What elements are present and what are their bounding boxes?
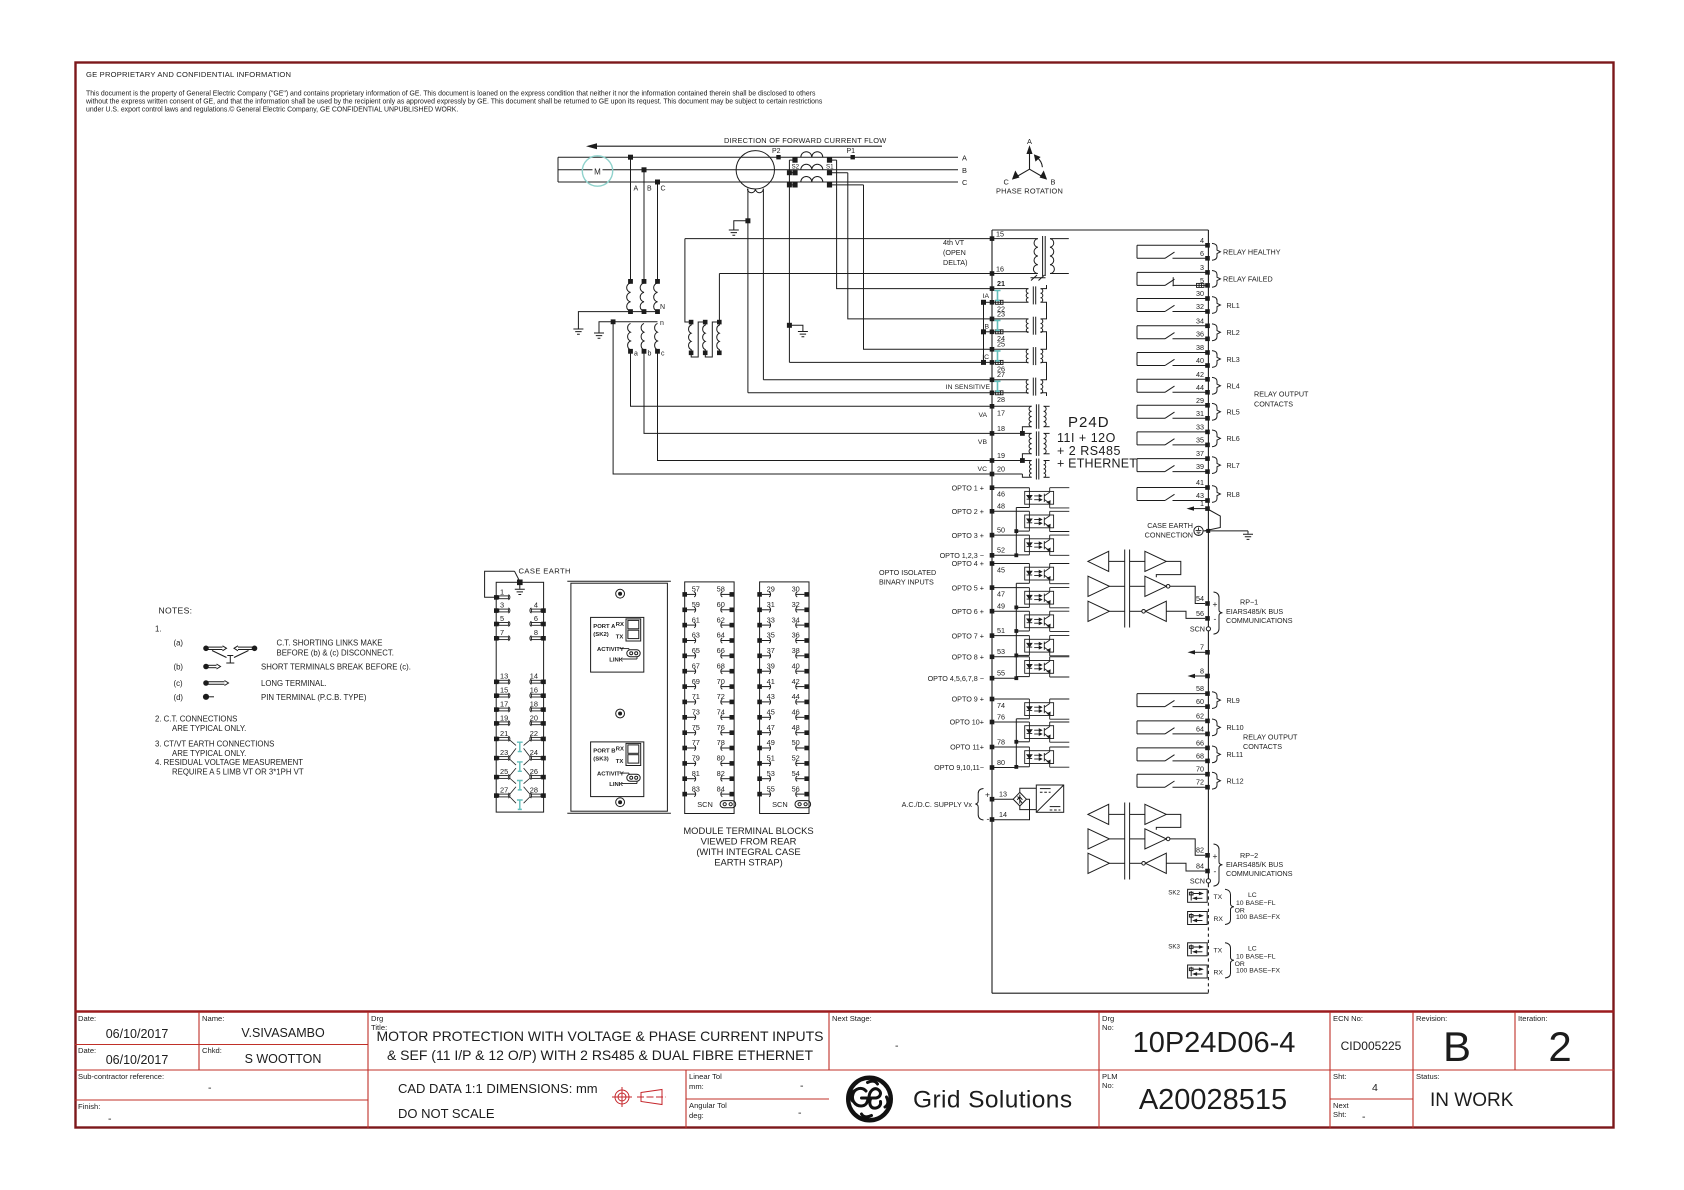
svg-text:40: 40 (792, 661, 800, 670)
svg-text:CAD DATA 1:1 DIMENSIONS: mm: CAD DATA 1:1 DIMENSIONS: mm (398, 1081, 598, 1096)
relay output RL10 (1137, 711, 1244, 736)
svg-text:deg:: deg: (689, 1111, 704, 1120)
first-angle projection symbol (612, 1087, 666, 1107)
svg-text:PORT B: PORT B (593, 748, 615, 754)
svg-text:OPTO 10+: OPTO 10+ (950, 718, 984, 727)
svg-text:-: - (208, 1082, 212, 1094)
svg-text:56: 56 (1196, 609, 1204, 618)
svg-text:48: 48 (997, 502, 1005, 511)
svg-text:72: 72 (1196, 778, 1204, 787)
svg-text:EIARS485/K BUS: EIARS485/K BUS (1226, 860, 1283, 869)
svg-text:RP−1: RP−1 (1240, 598, 1258, 607)
svg-text:Drg: Drg (1102, 1014, 1114, 1023)
svg-text:VC: VC (978, 466, 988, 473)
svg-text:41: 41 (1196, 478, 1204, 487)
svg-text:39: 39 (767, 661, 775, 670)
block4 terminal 55 (757, 784, 775, 796)
svg-text:21: 21 (500, 729, 508, 738)
RP-2 drive buffer 1 (1088, 829, 1109, 849)
RP-1 drive buffer 1 (1088, 576, 1109, 596)
block3 terminal 81 (682, 769, 700, 781)
svg-text:15: 15 (500, 686, 508, 695)
phase rotation symbol (1013, 147, 1046, 179)
terminal block 3 (685, 582, 734, 814)
svg-text:IC: IC (982, 354, 989, 361)
svg-text:No:: No: (1102, 1023, 1114, 1032)
terminal 56 (1205, 616, 1210, 621)
relay failed contact (1137, 263, 1273, 288)
svg-text:RELAY FAILED: RELAY FAILED (1223, 275, 1273, 284)
svg-text:82: 82 (717, 769, 725, 778)
block4 terminal 50 (792, 738, 809, 750)
svg-text:Date:: Date: (78, 1046, 96, 1055)
block1 terminal 16 (530, 686, 546, 699)
svg-text:Iteration:: Iteration: (1518, 1014, 1548, 1023)
RP-2 driver 2 (1145, 829, 1166, 849)
svg-text:(a): (a) (174, 639, 184, 648)
svg-text:77: 77 (692, 738, 700, 747)
opto input 4 terminal 45 (952, 559, 1070, 584)
svg-text:Chkd:: Chkd: (202, 1046, 222, 1055)
relay output RL3 (1137, 343, 1240, 368)
svg-text:26: 26 (530, 767, 538, 776)
block4 terminal 41 (757, 677, 775, 689)
svg-text:63: 63 (692, 631, 700, 640)
block4 terminal 38 (792, 646, 809, 658)
svg-text:RL6: RL6 (1227, 434, 1240, 443)
svg-text:14: 14 (999, 810, 1007, 819)
opto group 1 return terminal 52 (940, 508, 1019, 561)
svg-text:V.SIVASAMBO: V.SIVASAMBO (241, 1026, 325, 1040)
svg-text:Finish:: Finish: (78, 1102, 100, 1111)
current input IC (982, 340, 1043, 374)
svg-text:RX: RX (1214, 916, 1224, 923)
svg-text:80: 80 (717, 754, 725, 763)
svg-text:6: 6 (534, 614, 538, 623)
block4 terminal 54 (792, 769, 809, 781)
svg-text:78: 78 (997, 737, 1005, 746)
svg-text:a: a (634, 351, 638, 358)
opto input 1 terminal 46 (952, 483, 1070, 508)
svg-text:LINK: LINK (609, 782, 623, 788)
svg-text:-: - (1362, 1111, 1366, 1123)
svg-text:19: 19 (997, 451, 1005, 460)
svg-text:P24D: P24D (1068, 414, 1110, 431)
title block labels (78, 1014, 1548, 1120)
svg-text:2: 2 (1548, 1023, 1571, 1070)
svg-text:B: B (647, 186, 652, 193)
terminal 82 (1205, 853, 1210, 858)
ring CT earth symbol (729, 230, 739, 235)
svg-text:37: 37 (1196, 449, 1204, 458)
svg-text:OPTO 2 +: OPTO 2 + (952, 507, 984, 516)
RP-2 brace (1214, 844, 1223, 886)
svg-text:Sub-contractor reference:: Sub-contractor reference: (78, 1072, 164, 1081)
block1 terminal 5 (494, 614, 510, 627)
block3 terminal 74 (717, 708, 734, 720)
block4 terminal 47 (757, 723, 775, 735)
wire ring CT to terminal 27 (763, 379, 992, 381)
block1 terminal 21 (494, 729, 510, 742)
svg-text:10P24D06-4: 10P24D06-4 (1133, 1027, 1296, 1059)
PORT B panel (591, 742, 644, 797)
svg-text:SK2: SK2 (1168, 890, 1180, 897)
svg-text:60: 60 (717, 600, 725, 609)
svg-text:52: 52 (792, 754, 800, 763)
wire broken delta to terminal 15 (685, 238, 992, 240)
relay output RL2 (1137, 316, 1240, 341)
svg-text:CONNECTION: CONNECTION (1145, 531, 1193, 540)
svg-text:55: 55 (997, 669, 1005, 678)
svg-text:42: 42 (792, 677, 800, 686)
VT secondary earth (594, 333, 604, 338)
SK3 RX module (1188, 965, 1224, 978)
svg-text:82: 82 (1196, 846, 1204, 855)
svg-text:44: 44 (792, 692, 800, 701)
current input IB (983, 309, 1043, 343)
svg-text:P2: P2 (772, 148, 781, 155)
block4 terminal 32 (792, 600, 809, 612)
svg-text:-: - (800, 1080, 804, 1092)
core balance ring CT (736, 151, 774, 393)
wire broken delta to terminal 16 (719, 273, 992, 275)
relay output RL9 (1137, 684, 1240, 709)
svg-text:45: 45 (997, 566, 1005, 575)
svg-text:8: 8 (534, 628, 538, 637)
svg-text:Sht:: Sht: (1333, 1110, 1347, 1119)
svg-text:44: 44 (1196, 383, 1204, 392)
svg-text:83: 83 (692, 784, 700, 793)
svg-text:55: 55 (767, 784, 775, 793)
opto input 11 terminal 78 (950, 737, 1069, 767)
RP-1 receive buffer (1088, 551, 1109, 571)
svg-text:58: 58 (1196, 684, 1204, 693)
svg-text:(OPEN: (OPEN (943, 248, 966, 257)
svg-text:57: 57 (692, 585, 700, 594)
svg-text:37: 37 (767, 646, 775, 655)
current input IA (983, 279, 1043, 313)
block3 terminal 69 (682, 677, 700, 689)
CT secondary chain stubs (1041, 285, 1047, 396)
svg-text:RL2: RL2 (1227, 328, 1240, 337)
svg-text:84: 84 (1196, 861, 1204, 870)
sensitive earth fault input (946, 370, 1043, 404)
relay output RL5 (1137, 396, 1240, 421)
svg-text:without the express written co: without the express written consent of G… (85, 99, 823, 106)
svg-text:RP−2: RP−2 (1240, 851, 1258, 860)
RP-1 drive buffer 2 (1088, 601, 1109, 621)
svg-text:38: 38 (792, 646, 800, 655)
svg-text:DIRECTION OF FORWARD CURREN: DIRECTION OF FORWARD CURRENT FLOW (724, 136, 887, 145)
module screw (616, 798, 625, 807)
svg-text:100 BASE−FX: 100 BASE−FX (1236, 968, 1280, 975)
svg-text:13: 13 (999, 790, 1007, 799)
svg-text:ECN No:: ECN No: (1333, 1014, 1363, 1023)
svg-text:4: 4 (534, 601, 538, 610)
RP-1 driver 2 (1145, 576, 1166, 596)
svg-text:47: 47 (997, 590, 1005, 599)
block3 terminal 58 (717, 585, 734, 597)
svg-text:MODULE TERMINAL BLOCKS: MODULE TERMINAL BLOCKS (683, 825, 813, 836)
svg-text:OPTO 9 +: OPTO 9 + (952, 695, 984, 704)
svg-text:1.: 1. (155, 625, 162, 634)
wire b to terminal 18 (644, 351, 992, 433)
svg-text:78: 78 (717, 738, 725, 747)
svg-text:35: 35 (1196, 435, 1204, 444)
svg-text:OPTO 7 +: OPTO 7 + (952, 631, 984, 640)
svg-text:24: 24 (530, 748, 538, 757)
svg-text:49: 49 (997, 602, 1005, 611)
svg-text:75: 75 (692, 723, 700, 732)
case earth connection (1145, 510, 1253, 540)
SK3 brace (1225, 943, 1234, 978)
svg-text:LONG TERMINAL.: LONG TERMINAL. (261, 679, 327, 688)
svg-text:RELAY HEALTHY: RELAY HEALTHY (1223, 248, 1281, 257)
svg-text:VIEWED FROM REAR: VIEWED FROM REAR (701, 836, 797, 847)
svg-text:84: 84 (717, 784, 725, 793)
svg-text:3: 3 (500, 601, 504, 610)
svg-text:76: 76 (997, 712, 1005, 721)
opto group 2 return terminal 55 (928, 583, 1019, 683)
svg-text:3: 3 (1200, 263, 1204, 272)
VT primary earth (573, 329, 583, 334)
svg-text:33: 33 (1196, 422, 1204, 431)
svg-text:SK3: SK3 (1168, 944, 1180, 951)
svg-text:16: 16 (996, 264, 1004, 273)
RP-2 receiver 2 (1146, 853, 1167, 873)
A.C./D.C. auxiliary supply (902, 785, 1064, 824)
svg-text:+: + (985, 790, 990, 800)
opto input 3 terminal 50 (952, 526, 1070, 556)
wire a to terminal 17 (631, 351, 993, 406)
svg-text:Grid Solutions: Grid Solutions (913, 1087, 1072, 1114)
svg-text:RL7: RL7 (1227, 461, 1240, 470)
voltage input VC (978, 451, 1050, 480)
svg-text:50: 50 (792, 738, 800, 747)
svg-text:Date:: Date: (78, 1014, 96, 1023)
svg-text:60: 60 (1196, 697, 1204, 706)
svg-text:16: 16 (530, 686, 538, 695)
svg-text:41: 41 (767, 677, 775, 686)
svg-text:06/10/2017: 06/10/2017 (106, 1053, 169, 1067)
block4 terminal 45 (757, 708, 775, 720)
svg-text:39: 39 (1196, 462, 1204, 471)
svg-text:EIARS485/K BUS: EIARS485/K BUS (1226, 607, 1283, 616)
svg-text:Sht:: Sht: (1333, 1072, 1347, 1081)
svg-text:OPTO 8 +: OPTO 8 + (952, 653, 984, 662)
block4 terminal 51 (757, 754, 775, 766)
svg-text:TX: TX (616, 759, 624, 765)
block4 terminal 30 (792, 585, 809, 597)
block3 terminal 65 (682, 646, 700, 658)
bus line A (558, 156, 958, 158)
block3 terminal 63 (682, 631, 700, 643)
ring CT secondary leads (747, 189, 749, 393)
block3 terminal 71 (682, 692, 700, 704)
svg-text:68: 68 (717, 661, 725, 670)
svg-text:14: 14 (530, 672, 538, 681)
block4 SCN terminal (772, 800, 811, 809)
svg-text:TX: TX (1214, 894, 1223, 901)
svg-text:TX: TX (616, 634, 624, 640)
svg-text:C: C (962, 178, 968, 187)
svg-text:13: 13 (500, 672, 508, 681)
svg-text:67: 67 (692, 661, 700, 670)
block1 terminal 22 (530, 729, 546, 742)
svg-text:A.C./D.C. SUPPLY Vx: A.C./D.C. SUPPLY Vx (902, 800, 973, 809)
svg-text:4. RESIDUAL VOLTAGE MEASURE: 4. RESIDUAL VOLTAGE MEASUREMENT (155, 758, 303, 767)
RP-2 isolation barrier (1124, 803, 1126, 880)
svg-text:20: 20 (530, 713, 538, 722)
broken delta VT winding (685, 239, 721, 357)
svg-text:LC: LC (1248, 946, 1257, 953)
svg-text:7: 7 (1200, 643, 1204, 652)
block1 terminal 23 (494, 748, 510, 761)
svg-text:+: + (1213, 851, 1218, 861)
svg-text:50: 50 (997, 526, 1005, 535)
svg-text:79: 79 (692, 754, 700, 763)
svg-text:-: - (798, 1107, 802, 1119)
svg-text:18: 18 (530, 700, 538, 709)
block1 terminal 4 (530, 601, 546, 614)
svg-text:IB: IB (983, 323, 990, 330)
svg-text:54: 54 (1196, 594, 1204, 603)
block1 terminal 13 (494, 672, 510, 685)
svg-text:32: 32 (792, 600, 800, 609)
svg-text:c: c (661, 351, 665, 358)
svg-text:Name:: Name: (202, 1014, 224, 1023)
RP-1 receiver 2 (1146, 601, 1167, 621)
title block values (106, 1026, 325, 1067)
svg-text:+: + (1213, 599, 1218, 609)
svg-text:SHORT TERMINALS BREAK BEFORE (: SHORT TERMINALS BREAK BEFORE (c). (261, 663, 411, 672)
block3 terminal 75 (682, 723, 700, 735)
SK3 TX module (1168, 943, 1222, 956)
svg-text:35: 35 (767, 631, 775, 640)
terminal 54 (1205, 601, 1210, 606)
svg-text:OPTO 11+: OPTO 11+ (950, 743, 984, 752)
svg-text:RL9: RL9 (1227, 696, 1240, 705)
svg-text:PHASE ROTATION: PHASE ROTATION (996, 187, 1063, 196)
svg-text:62: 62 (1196, 711, 1204, 720)
svg-text:38: 38 (1196, 343, 1204, 352)
terminal 15 (990, 236, 995, 241)
block1 terminal 7 (494, 628, 510, 641)
svg-text:RL1: RL1 (1227, 301, 1240, 310)
svg-text:RX: RX (1214, 970, 1224, 977)
phase C CT S1 wire to terminal 25 (864, 185, 993, 349)
svg-text:70: 70 (1196, 765, 1204, 774)
svg-text:LINK: LINK (609, 657, 623, 663)
block1 terminal 14 (530, 672, 546, 685)
svg-text:NOTES:: NOTES: (159, 606, 193, 616)
svg-text:46: 46 (997, 490, 1005, 499)
svg-text:18: 18 (997, 424, 1005, 433)
svg-text:54: 54 (792, 769, 800, 778)
svg-text:DO NOT SCALE: DO NOT SCALE (398, 1106, 495, 1121)
voltage input VA (978, 404, 1049, 433)
svg-text:80: 80 (997, 758, 1005, 767)
svg-text:RL10: RL10 (1227, 723, 1244, 732)
svg-text:S WOOTTON: S WOOTTON (245, 1052, 322, 1066)
svg-text:-: - (987, 814, 990, 824)
svg-text:53: 53 (767, 769, 775, 778)
svg-text:40: 40 (1196, 356, 1204, 365)
RP-1 brace (1214, 592, 1223, 634)
block3 terminal 83 (682, 784, 700, 796)
svg-text:47: 47 (767, 723, 775, 732)
block3 terminal 67 (682, 661, 700, 673)
svg-text:66: 66 (1196, 738, 1204, 747)
svg-text:OPTO 6 +: OPTO 6 + (952, 607, 984, 616)
relay healthy contact (1137, 236, 1281, 261)
svg-text:28: 28 (997, 395, 1005, 404)
SCN terminal RP-2 (1206, 879, 1210, 883)
block3 terminal 76 (717, 723, 734, 735)
block4 terminal 53 (757, 769, 775, 781)
relay output RL1 (1137, 289, 1240, 314)
opto input 5 terminal 47 (952, 583, 1070, 608)
svg-text:RL8: RL8 (1227, 490, 1240, 499)
svg-text:65: 65 (692, 646, 700, 655)
block4 terminal 52 (792, 754, 809, 766)
svg-text:VA: VA (978, 412, 987, 419)
svg-text:No:: No: (1102, 1081, 1114, 1090)
svg-text:B: B (1051, 178, 1056, 187)
svg-text:under U.S. export control laws: under U.S. export control laws and regul… (86, 106, 458, 114)
opto input 2 terminal 48 (952, 502, 1070, 532)
svg-text:RX: RX (616, 747, 624, 753)
phase A CT (789, 152, 836, 163)
block3 terminal 77 (682, 738, 700, 750)
block4 terminal 56 (792, 784, 809, 796)
block1 CT shorting link 2 (510, 759, 531, 776)
relay output RL7 (1137, 449, 1240, 474)
svg-text:10 BASE−FL: 10 BASE−FL (1236, 954, 1276, 961)
svg-text:29: 29 (1196, 396, 1204, 405)
svg-text:COMMUNICATIONS: COMMUNICATIONS (1226, 869, 1293, 878)
block4 terminal 33 (757, 615, 775, 627)
phase A CT S1 wire to terminal 21 (837, 160, 992, 289)
svg-text:15: 15 (996, 229, 1004, 238)
CT S2 common return drop to terminal 26 (787, 160, 992, 362)
RP-2 receive buffer (1088, 804, 1109, 824)
svg-text:06/10/2017: 06/10/2017 (106, 1027, 169, 1041)
svg-text:PORT A: PORT A (593, 624, 616, 630)
block3 terminal 73 (682, 708, 700, 720)
voltage input VB (978, 424, 1050, 461)
block3 terminal 80 (717, 754, 734, 766)
svg-text:2. C.T. CONNECTIONS: 2. C.T. CONNECTIONS (155, 715, 237, 724)
block4 terminal 35 (757, 631, 775, 643)
block1 terminal 19 (494, 713, 510, 726)
block3 terminal 79 (682, 754, 700, 766)
svg-text:A20028515: A20028515 (1139, 1084, 1287, 1116)
svg-text:Angular Tol: Angular Tol (689, 1101, 727, 1110)
case earth pin (518, 580, 523, 585)
svg-text:43: 43 (767, 692, 775, 701)
block3 terminal 68 (717, 661, 734, 673)
svg-text:56: 56 (792, 784, 800, 793)
RP-1 output driver (1145, 551, 1166, 571)
svg-text:17: 17 (500, 700, 508, 709)
interwinding screen earth (1031, 275, 1046, 281)
terminal 16 (990, 271, 995, 276)
svg-text:RL5: RL5 (1227, 408, 1240, 417)
block3 terminal 61 (682, 615, 700, 627)
block4 terminal 36 (792, 631, 809, 643)
block4 terminal 29 (757, 585, 775, 597)
